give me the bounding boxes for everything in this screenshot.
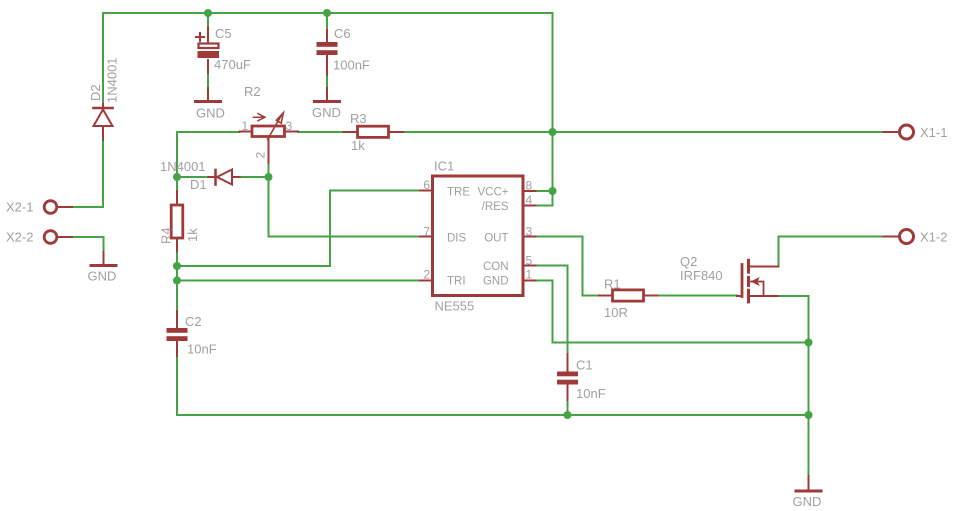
svg-text:GND: GND <box>793 494 822 509</box>
svg-text:X1-2: X1-2 <box>920 230 947 245</box>
ground symbol X2-2 <box>91 252 116 266</box>
wire IC pin2 TRI to R4 node <box>177 280 420 282</box>
svg-text:8: 8 <box>526 179 533 193</box>
IC1 pin 5 stub <box>523 265 536 267</box>
wire left vertical above D2 <box>102 13 104 104</box>
svg-text:6: 6 <box>423 178 430 192</box>
svg-text:Q2: Q2 <box>680 254 697 269</box>
svg-text:10R: 10R <box>604 305 628 320</box>
svg-text:2: 2 <box>423 268 430 282</box>
wire node D1 left <box>177 176 209 178</box>
junction TRI at R4 <box>173 277 181 285</box>
svg-text:2: 2 <box>254 152 268 159</box>
svg-text:4: 4 <box>526 193 533 207</box>
svg-text:OUT: OUT <box>484 233 508 245</box>
svg-text:3: 3 <box>286 119 293 133</box>
wire R3 to X1-1 <box>403 131 884 133</box>
wire IC pin3 OUT to R1 <box>536 237 600 296</box>
capacitor C6 <box>317 30 338 75</box>
svg-text:X2-2: X2-2 <box>6 230 33 245</box>
wire C1 bottom to ground rail <box>567 400 569 415</box>
wire IC pin8 to VCC vertical <box>536 190 553 192</box>
wire R2 pin2 down to IC pin7 DIS <box>269 163 421 237</box>
capacitor C5 <box>196 27 219 73</box>
IC1 pin 4 stub <box>523 205 536 207</box>
svg-text:IRF840: IRF840 <box>680 268 723 283</box>
IC1 pin 8 stub <box>523 190 536 192</box>
svg-text:1N4001: 1N4001 <box>160 159 206 174</box>
resistor R3 <box>344 126 404 137</box>
wire IC pin1 GND to right vertical <box>536 281 809 343</box>
svg-text:D1: D1 <box>190 177 207 192</box>
svg-text:D2: D2 <box>88 84 103 101</box>
junction ground rail at right vertical <box>805 411 813 419</box>
wire VCC top rail <box>103 12 553 14</box>
IC1 pin 1 stub <box>523 280 536 282</box>
wire C6 top <box>326 13 328 30</box>
diode D2 <box>94 104 113 140</box>
wire C5 bottom to GND <box>207 73 209 88</box>
svg-text:R4: R4 <box>159 227 174 244</box>
svg-text:7: 7 <box>423 225 430 239</box>
svg-text:IC1: IC1 <box>434 159 454 174</box>
wire VCC right vertical down to pins 8/4 <box>536 13 553 206</box>
svg-text:1N4001: 1N4001 <box>105 57 120 103</box>
junction C6 at VCC rail <box>323 9 331 17</box>
svg-text:R1: R1 <box>604 277 621 292</box>
svg-text:5: 5 <box>526 254 533 268</box>
wire R4 bottom to C2 <box>176 252 178 312</box>
svg-text:C2: C2 <box>185 314 202 329</box>
svg-text:X1-1: X1-1 <box>920 125 947 140</box>
IC1 pin 6 stub <box>420 190 433 192</box>
connector X2-2 <box>44 231 72 244</box>
svg-text:GND: GND <box>312 105 341 120</box>
svg-text:GND: GND <box>196 106 225 121</box>
wire left vertical below D2 to X2-1 <box>72 140 103 207</box>
junction C1 at ground rail <box>564 411 572 419</box>
ground symbol bottom right <box>796 476 821 491</box>
wire C2 bottom to ground rail <box>177 356 809 415</box>
svg-text:470uF: 470uF <box>214 57 251 72</box>
IC1 pin 7 stub <box>420 236 433 238</box>
diode D1 <box>209 170 240 185</box>
connector X1-1 <box>884 125 914 139</box>
ground symbol C5 <box>196 88 221 102</box>
svg-text:1k: 1k <box>185 228 200 242</box>
svg-text:C5: C5 <box>215 26 232 41</box>
wire R1 to Q2 gate <box>658 295 738 297</box>
wire IC pin5 CON to C1 <box>536 266 568 355</box>
junction C5 at VCC rail <box>204 9 212 17</box>
IC1 pin 3 stub <box>523 236 536 238</box>
svg-text:TRE: TRE <box>447 187 470 199</box>
svg-text:10nF: 10nF <box>187 342 217 357</box>
junction D1 anode / R2 pin2 <box>265 173 273 181</box>
svg-text:C6: C6 <box>334 26 351 41</box>
connector X1-2 <box>884 230 914 244</box>
wire X2-2 to GND <box>72 237 104 252</box>
svg-text:VCC+: VCC+ <box>478 187 509 199</box>
svg-text:DIS: DIS <box>447 233 467 245</box>
resistor R4 <box>171 191 183 252</box>
resistor R1 <box>599 290 658 301</box>
svg-text:1: 1 <box>242 119 249 133</box>
svg-text:R3: R3 <box>350 111 367 126</box>
transistor Q2 IRF840 <box>737 259 779 304</box>
svg-text:1: 1 <box>526 268 533 282</box>
wire D1 anode to R2 pin2 node <box>240 176 269 178</box>
junction VCC at X1-1 net <box>549 128 557 136</box>
junction IC GND at right vertical <box>805 339 813 347</box>
svg-text:CON: CON <box>483 261 509 273</box>
IC1 NE555 box <box>433 176 524 296</box>
wire R2 pin1 down to D1 node <box>177 132 240 177</box>
capacitor C1 <box>557 354 578 400</box>
wire C6 bottom to GND <box>326 75 328 88</box>
junction TRE at R4 <box>173 262 181 270</box>
svg-text:GND: GND <box>88 269 117 284</box>
svg-text:1k: 1k <box>351 138 365 153</box>
wire R2 pin3 to R3 <box>298 131 344 133</box>
svg-text:C1: C1 <box>576 358 593 373</box>
wire Q2 source to ground vertical <box>778 296 809 476</box>
svg-text:R2: R2 <box>244 84 261 99</box>
svg-text:3: 3 <box>526 225 533 239</box>
svg-text:/RES: /RES <box>482 201 509 213</box>
ground symbol C6 <box>315 88 340 102</box>
wire Q2 drain to X1-2 <box>779 237 884 267</box>
potentiometer R2 <box>240 113 299 163</box>
svg-text:10nF: 10nF <box>576 386 606 401</box>
svg-text:100nF: 100nF <box>333 58 370 73</box>
svg-text:GND: GND <box>483 276 509 288</box>
junction pin8 <box>549 187 557 195</box>
IC1 pin 2 stub <box>420 280 433 282</box>
connector X2-1 <box>44 201 72 214</box>
wire IC pin6 TRE to R4 node <box>177 191 420 267</box>
wire D1 node down to R4 <box>176 177 178 191</box>
svg-text:TRI: TRI <box>447 276 466 288</box>
wire C5 top <box>207 13 209 27</box>
svg-text:X2-1: X2-1 <box>6 200 33 215</box>
svg-text:NE555: NE555 <box>435 299 475 314</box>
capacitor C2 <box>167 311 188 356</box>
junction D1 cathode node <box>173 173 181 181</box>
